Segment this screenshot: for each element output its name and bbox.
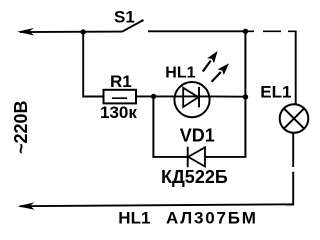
svg-text:КД522Б: КД522Б	[161, 167, 228, 187]
LED light arrow 2	[212, 63, 229, 81]
arrow bottom-left	[18, 202, 35, 209]
svg-text:HL1: HL1	[118, 208, 150, 227]
resistor power mark 0.5W	[112, 97, 127, 99]
node B junction dot	[243, 94, 248, 99]
wire bottom	[20, 204, 293, 206]
wire top from arrow to switch pivot	[20, 31, 123, 33]
node junction top-right	[243, 29, 248, 34]
lamp EL1 cross	[284, 108, 304, 128]
svg-text:130к: 130к	[100, 103, 137, 122]
wire right branch down to lamp	[295, 31, 297, 105]
wire switch right segment	[148, 30, 247, 32]
wire left rail of VD1 loop	[152, 96, 154, 157]
wire lamp to bottom	[285, 133, 293, 205]
LED HL1 circle	[174, 82, 209, 117]
svg-text:VD1: VD1	[180, 126, 215, 146]
wire dashed to top-right corner	[248, 30, 297, 32]
svg-text:~220В: ~220В	[11, 100, 31, 154]
LED cathode bar	[198, 87, 200, 107]
resistor R1	[104, 90, 137, 104]
lamp EL1 circle	[280, 104, 309, 133]
wire LED to node B	[210, 95, 246, 97]
wire right rail	[244, 31, 246, 157]
switch S1 blade	[122, 20, 144, 32]
wire left drop from junction	[83, 32, 103, 97]
diode VD1 triangle	[188, 147, 205, 166]
svg-text:R1: R1	[110, 72, 132, 91]
arrow top-left	[17, 28, 34, 35]
LED light arrow 1	[203, 51, 218, 72]
wire resistor to node A	[136, 95, 155, 97]
node junction top-left	[81, 29, 86, 34]
wire VD1 bottom left	[153, 156, 188, 158]
diode VD1 cathode bar	[187, 147, 189, 167]
LED triangle	[183, 88, 198, 107]
wire node A to LED	[154, 95, 210, 97]
wire VD1 bottom right	[205, 156, 246, 158]
svg-text:S1: S1	[114, 8, 135, 27]
node A junction dot	[151, 94, 156, 99]
svg-text:EL1: EL1	[260, 82, 291, 101]
svg-text:HL1: HL1	[165, 64, 195, 81]
svg-text:АЛ307БМ: АЛ307БМ	[166, 208, 258, 227]
